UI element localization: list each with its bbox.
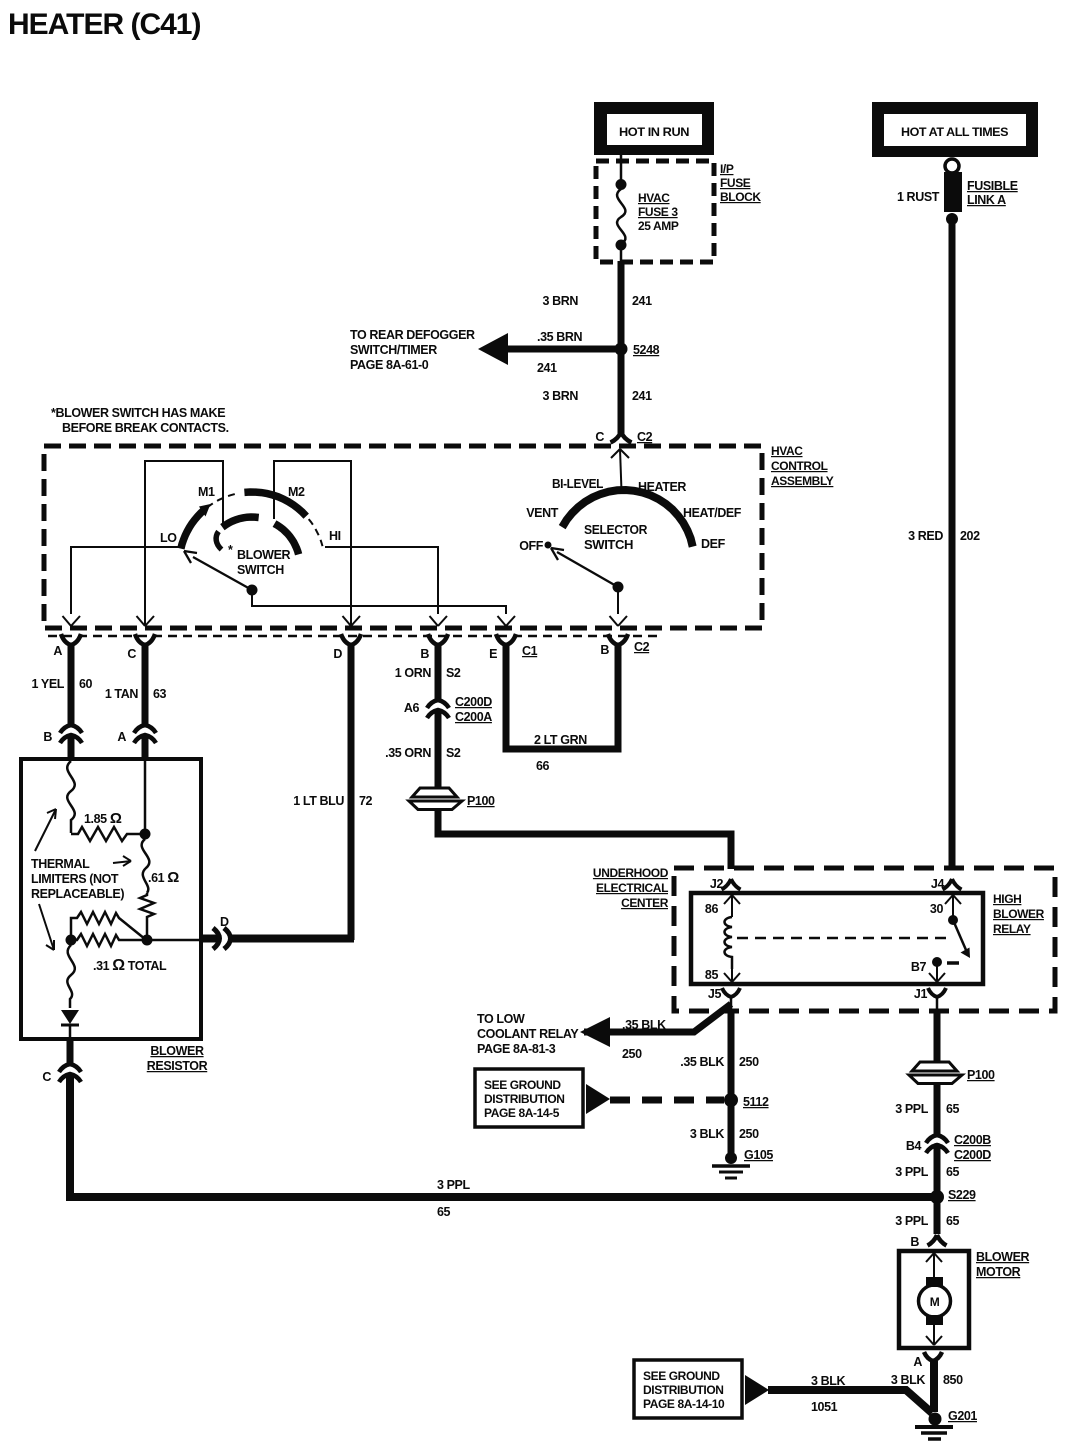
connector D [341, 634, 361, 645]
blower switch M1 frame [145, 461, 223, 625]
blower switch inner top arc [222, 517, 258, 527]
connector A at motor [924, 1352, 942, 1361]
svg-text:1 ORN: 1 ORN [395, 666, 432, 680]
arrowhead on arc [199, 504, 211, 517]
svg-text:.35 BLK: .35 BLK [622, 1018, 666, 1032]
svg-text:M2: M2 [288, 485, 305, 499]
connector B [428, 634, 448, 645]
svg-text:RELAY: RELAY [993, 922, 1031, 936]
svg-text:LINK A: LINK A [967, 193, 1006, 207]
wire J5 down to G105 [728, 1010, 735, 1158]
svg-text:M1: M1 [198, 485, 215, 499]
high blower relay box [691, 893, 983, 984]
blower switch inner right arc [275, 524, 299, 555]
connector B4 C200B C200D [926, 1135, 948, 1153]
arrow into assembly [611, 449, 629, 491]
svg-text:SWITCH: SWITCH [584, 538, 633, 552]
svg-text:65: 65 [437, 1205, 451, 1219]
svg-text:PAGE 8A-14-5: PAGE 8A-14-5 [484, 1106, 560, 1120]
ground G105 [725, 1152, 737, 1164]
svg-text:J4: J4 [931, 877, 945, 891]
svg-text:PAGE 8A-61-0: PAGE 8A-61-0 [350, 358, 429, 372]
blower switch outer arc M2 segment [244, 492, 306, 516]
svg-text:.35 ORN: .35 ORN [385, 746, 431, 760]
wire C (1 TAN 63) [142, 644, 149, 724]
resistor D output wire [147, 939, 201, 942]
svg-text:C2: C2 [634, 640, 650, 654]
dashed arc M1 [207, 493, 239, 507]
svg-text:1 TAN: 1 TAN [105, 687, 139, 701]
connector B C2 [608, 634, 628, 645]
ground G201 [929, 1413, 942, 1426]
svg-text:A: A [53, 644, 62, 658]
wire A (1 YEL 60) [68, 644, 75, 724]
wire ground distribution to G201 [768, 1390, 932, 1413]
blower switch wiper [193, 557, 252, 590]
svg-text:202: 202 [960, 529, 980, 543]
svg-text:MOTOR: MOTOR [976, 1265, 1021, 1279]
svg-text:J1: J1 [914, 987, 928, 1001]
svg-text:C200D: C200D [954, 1148, 991, 1162]
wire 3 PPL long run [70, 1075, 936, 1197]
svg-text:B4: B4 [906, 1139, 922, 1153]
connector P100 lower [909, 1062, 995, 1084]
svg-text:I/P: I/P [720, 162, 734, 176]
box HOT IN RUN [594, 102, 714, 155]
svg-text:B: B [43, 730, 52, 744]
svg-text:HVAC: HVAC [771, 444, 803, 458]
svg-text:P100: P100 [467, 794, 495, 808]
connector J5 [722, 988, 740, 997]
svg-text:C2: C2 [637, 430, 653, 444]
svg-text:850: 850 [943, 1373, 963, 1387]
svg-text:LO: LO [160, 531, 177, 545]
svg-text:HI: HI [329, 529, 341, 543]
svg-text:3 RED: 3 RED [908, 529, 943, 543]
thermal limiter 2 [142, 839, 150, 893]
parallel resistor lower zigzag [71, 934, 147, 946]
resistor 1.85 zigzag [71, 827, 145, 841]
connector D chevrons [201, 935, 219, 943]
box SEE GROUND DISTRIBUTION 8A-14-10 [634, 1360, 742, 1418]
parallel resistor upper zigzag [71, 912, 145, 940]
diode [61, 1010, 79, 1024]
wire fuse to S248 [618, 261, 625, 349]
connector J4 [943, 879, 962, 890]
svg-text:FUSE 3: FUSE 3 [638, 205, 678, 219]
relay coil [725, 917, 733, 969]
connector E C1 [496, 634, 516, 645]
svg-text:65: 65 [946, 1214, 960, 1228]
pin arrows at assembly bottom edge [63, 616, 628, 626]
selector wiper [557, 552, 618, 587]
thermal limiter 3 [67, 945, 75, 1008]
svg-text:SELECTOR: SELECTOR [584, 523, 647, 537]
svg-text:3 BRN: 3 BRN [542, 294, 578, 308]
arrow to rear defogger [478, 333, 508, 365]
svg-text:241: 241 [537, 361, 557, 375]
svg-text:.61 Ω: .61 Ω [148, 869, 179, 886]
svg-text:RESISTOR: RESISTOR [147, 1059, 208, 1073]
svg-text:PAGE 8A-14-10: PAGE 8A-14-10 [643, 1397, 725, 1411]
svg-text:C200D: C200D [455, 695, 492, 709]
svg-text:3 PPL: 3 PPL [895, 1102, 928, 1116]
resistor .61 vertical zigzag [140, 893, 154, 940]
svg-text:A: A [913, 1355, 922, 1369]
branch to low coolant relay [584, 1004, 731, 1032]
junction S248 [615, 343, 628, 356]
wire C resistor bottom [67, 1037, 74, 1063]
wire E to B(C2) U-shape 2 LT GRN 66 [506, 644, 618, 749]
svg-text:ASSEMBLY: ASSEMBLY [771, 474, 834, 488]
svg-text:25 AMP: 25 AMP [638, 219, 679, 233]
svg-text:THERMAL: THERMAL [31, 857, 90, 871]
svg-text:LIMITERS (NOT: LIMITERS (NOT [31, 872, 119, 886]
svg-text:SEE GROUND: SEE GROUND [643, 1369, 720, 1383]
underhood electrical center dashed box [674, 868, 1055, 1011]
svg-text:3 PPL: 3 PPL [437, 1178, 470, 1192]
svg-text:ELECTRICAL: ELECTRICAL [596, 881, 668, 895]
svg-text:S2: S2 [446, 666, 461, 680]
svg-text:30: 30 [930, 902, 944, 916]
svg-text:G201: G201 [948, 1409, 977, 1423]
svg-text:FUSIBLE: FUSIBLE [967, 179, 1018, 193]
svg-text:1.85 Ω: 1.85 Ω [84, 810, 122, 827]
svg-text:COOLANT RELAY: COOLANT RELAY [477, 1027, 579, 1041]
svg-text:TO REAR DEFOGGER: TO REAR DEFOGGER [350, 328, 475, 342]
connector A6 C200D C200A [427, 700, 449, 718]
svg-text:66: 66 [536, 759, 550, 773]
svg-text:D: D [220, 915, 229, 929]
svg-text:G105: G105 [744, 1148, 773, 1162]
wire S248 branch to rear defogger [505, 346, 621, 353]
svg-text:B7: B7 [911, 960, 927, 974]
relay switch blade [948, 915, 958, 925]
svg-text:72: 72 [359, 794, 373, 808]
relay internal dashed link [737, 937, 953, 940]
svg-text:*BLOWER SWITCH HAS MAKE: *BLOWER SWITCH HAS MAKE [51, 406, 225, 420]
svg-text:1 LT BLU: 1 LT BLU [293, 794, 344, 808]
svg-text:S2: S2 [446, 746, 461, 760]
svg-text:60: 60 [79, 677, 93, 691]
svg-text:CONTROL: CONTROL [771, 459, 828, 473]
fusible link body [944, 172, 962, 212]
connector A inline on wire C [134, 725, 156, 743]
svg-text:63: 63 [153, 687, 167, 701]
svg-text:3 BRN: 3 BRN [542, 389, 578, 403]
svg-text:OFF: OFF [519, 539, 544, 553]
pin 86 arrow [724, 895, 740, 917]
svg-text:HIGH: HIGH [993, 892, 1021, 906]
box SEE GROUND DISTRIBUTION 8A-14-5 [475, 1069, 583, 1127]
svg-text:REPLACEABLE): REPLACEABLE) [31, 887, 124, 901]
blower motor box [899, 1251, 969, 1348]
svg-text:SWITCH/TIMER: SWITCH/TIMER [350, 343, 437, 357]
wire B to J2 [438, 809, 731, 869]
pointer arrows [35, 809, 131, 950]
svg-text:3 BLK: 3 BLK [811, 1374, 845, 1388]
svg-text:3 BLK: 3 BLK [690, 1127, 724, 1141]
connector P100 grommet [409, 788, 495, 810]
svg-text:BLOWER: BLOWER [976, 1250, 1030, 1264]
svg-text:C200A: C200A [455, 710, 492, 724]
pin 30 arrow [945, 895, 961, 918]
connector A [61, 634, 81, 645]
svg-text:*: * [228, 543, 233, 557]
svg-text:1 YEL: 1 YEL [31, 677, 64, 691]
svg-text:DEF: DEF [701, 537, 726, 551]
blower switch M2 frame [274, 461, 351, 625]
svg-text:C: C [595, 430, 604, 444]
svg-text:1 RUST: 1 RUST [897, 190, 940, 204]
wire LO to A pin [71, 547, 180, 614]
connector J2 [722, 879, 741, 890]
svg-text:250: 250 [622, 1047, 642, 1061]
svg-text:A: A [117, 730, 126, 744]
blower switch outer arc LO segment [181, 510, 204, 549]
connector B inline on wire A [60, 725, 82, 743]
wire B (1 ORN S2) [435, 644, 442, 699]
svg-text:.35 BRN: .35 BRN [537, 330, 583, 344]
fusible link circle [945, 159, 959, 173]
svg-text:C1: C1 [522, 644, 538, 658]
svg-text:HEAT/DEF: HEAT/DEF [683, 506, 742, 520]
selector switch arc [562, 490, 693, 547]
connector face dashed line [48, 635, 660, 638]
svg-text:BLOWER: BLOWER [150, 1044, 204, 1058]
svg-text:65: 65 [946, 1165, 960, 1179]
svg-text:HEATER: HEATER [638, 480, 686, 494]
svg-text:241: 241 [632, 389, 652, 403]
fuse HVAC FUSE 3 25 AMP [616, 155, 679, 261]
svg-text:FUSE: FUSE [720, 176, 751, 190]
junction S229 [930, 1190, 944, 1204]
svg-text:BLOWER: BLOWER [237, 548, 291, 562]
box HOT AT ALL TIMES [872, 102, 1038, 157]
HVAC control assembly dashed box [44, 446, 762, 628]
connector C [135, 634, 155, 645]
pin B7 contact [932, 957, 942, 967]
svg-text:241: 241 [632, 294, 652, 308]
svg-text:HOT IN RUN: HOT IN RUN [619, 127, 689, 139]
svg-text:UNDERHOOD: UNDERHOOD [593, 866, 669, 880]
junction S112 [724, 1093, 738, 1107]
svg-text:86: 86 [705, 902, 719, 916]
svg-text:2 LT GRN: 2 LT GRN [534, 733, 587, 747]
svg-text:BLOWER: BLOWER [993, 907, 1045, 921]
svg-text:DISTRIBUTION: DISTRIBUTION [484, 1092, 565, 1106]
svg-text:A6: A6 [404, 701, 420, 715]
blower resistor box [21, 759, 201, 1039]
svg-text:D: D [333, 647, 342, 661]
wire selector wiper to C2 pin [617, 587, 619, 614]
wire HI to B pin [325, 547, 438, 614]
connector C inline [59, 1064, 81, 1082]
wire C branch into resistor [144, 759, 147, 834]
svg-text:S229: S229 [948, 1188, 976, 1202]
svg-text:250: 250 [739, 1055, 759, 1069]
svg-text:J5: J5 [708, 987, 722, 1001]
svg-text:HOT AT ALL TIMES: HOT AT ALL TIMES [901, 127, 1009, 139]
svg-text:3 PPL: 3 PPL [895, 1165, 928, 1179]
dashed arc to HI [309, 519, 323, 546]
svg-text:VENT: VENT [526, 506, 559, 520]
svg-text:C200B: C200B [954, 1133, 991, 1147]
svg-text:BEFORE BREAK CONTACTS.: BEFORE BREAK CONTACTS. [62, 421, 229, 435]
svg-text:.35 BLK: .35 BLK [680, 1055, 724, 1069]
wire J1 to P100 [934, 1012, 941, 1062]
svg-text:HVAC: HVAC [638, 191, 670, 205]
pin 85 arrow [724, 969, 740, 982]
svg-text:BLOCK: BLOCK [720, 190, 761, 204]
svg-text:PAGE 8A-81-3: PAGE 8A-81-3 [477, 1042, 556, 1056]
svg-text:.31 Ω TOTAL: .31 Ω TOTAL [93, 957, 167, 974]
svg-text:SEE GROUND: SEE GROUND [484, 1078, 561, 1092]
svg-text:J2: J2 [710, 877, 724, 891]
I/P fuse block dashed box [596, 161, 714, 262]
svg-text:3 PPL: 3 PPL [895, 1214, 928, 1228]
svg-text:M: M [930, 1295, 940, 1309]
wire D (1 LT BLU 72) [348, 644, 355, 940]
thermal limiter 1 [67, 761, 75, 833]
svg-text:HEATER (C41): HEATER (C41) [8, 8, 200, 41]
blower switch inner hook [216, 532, 221, 550]
svg-text:85: 85 [705, 968, 719, 982]
connector C C2 at HVAC assembly top [611, 432, 632, 443]
dashed wire to S112 [610, 1097, 724, 1104]
svg-text:BI-LEVEL: BI-LEVEL [552, 477, 604, 491]
wire S248 to C2 [618, 349, 625, 434]
svg-text:250: 250 [739, 1127, 759, 1141]
svg-text:5112: 5112 [743, 1095, 769, 1109]
svg-text:3 BLK: 3 BLK [891, 1373, 925, 1387]
svg-text:B: B [910, 1235, 919, 1249]
svg-text:SWITCH: SWITCH [237, 563, 284, 577]
svg-text:1051: 1051 [811, 1400, 838, 1414]
svg-text:B: B [420, 647, 429, 661]
svg-text:65: 65 [946, 1102, 960, 1116]
svg-text:P100: P100 [967, 1068, 995, 1082]
svg-text:CENTER: CENTER [621, 896, 669, 910]
svg-text:C: C [42, 1070, 51, 1084]
svg-text:DISTRIBUTION: DISTRIBUTION [643, 1383, 724, 1397]
svg-text:B: B [600, 643, 609, 657]
OFF contact [545, 542, 552, 549]
svg-text:TO LOW: TO LOW [477, 1012, 525, 1026]
wire 3 RED 202 to J4 [949, 219, 956, 869]
svg-text:5248: 5248 [633, 343, 660, 357]
svg-text:E: E [489, 647, 497, 661]
motor internals [926, 1253, 942, 1277]
connector J1 [928, 988, 946, 997]
wire wiper to E pin [252, 590, 506, 614]
svg-text:C: C [127, 647, 136, 661]
connector B at motor [928, 1235, 947, 1246]
